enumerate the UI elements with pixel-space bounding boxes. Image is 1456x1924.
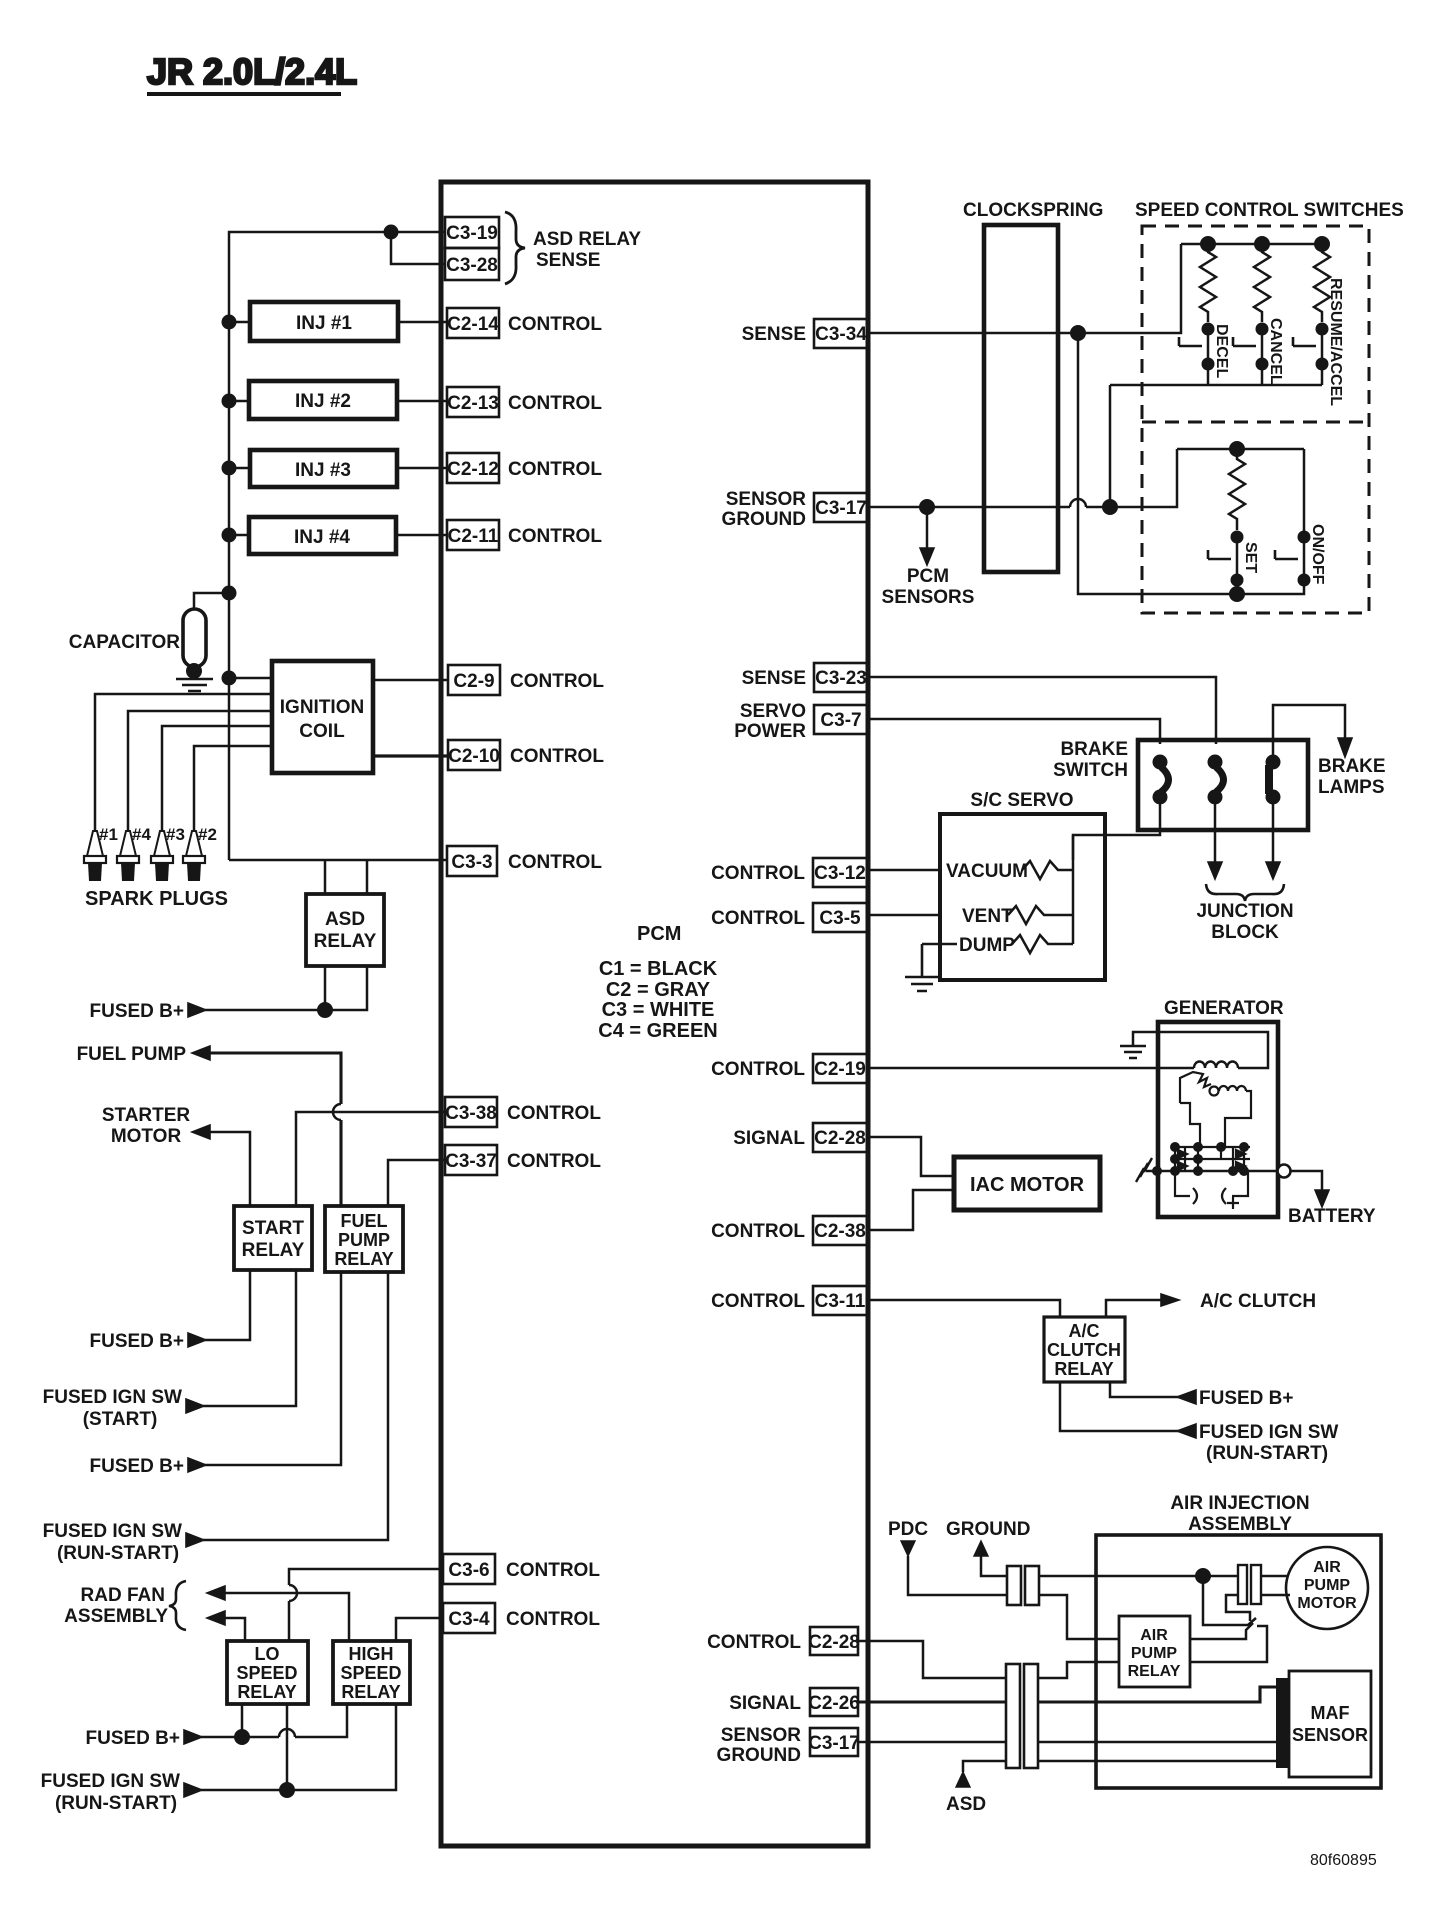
spark plug #1 (84, 825, 118, 881)
wire hop fused B+ over lo relay output (279, 1729, 295, 1737)
node FUSED B+ arrow (fan relays) (184, 1730, 202, 1744)
wire C2-28 control to air pump relay (858, 1641, 1119, 1678)
pin C3-4 (443, 1603, 600, 1633)
svg-text:C3-34: C3-34 (815, 324, 867, 345)
svg-text:LO: LO (255, 1644, 280, 1664)
wire start relay to FUSED IGN SW START (203, 1270, 296, 1406)
svg-text:C1 = BLACK: C1 = BLACK (599, 958, 718, 980)
svg-text:(RUN-START): (RUN-START) (1206, 1443, 1328, 1464)
junction top rail R2 (1254, 236, 1270, 252)
s/c servo box (940, 790, 1105, 980)
brake switch pole 2 (1208, 755, 1224, 805)
pin C3-3 (447, 846, 602, 876)
svg-text:FUSED IGN SW: FUSED IGN SW (1199, 1422, 1338, 1443)
wire C3-23 sense to brake switch (868, 677, 1216, 744)
wire ASD relay top terminals (325, 860, 367, 894)
wire C3-4 to high speed relay (396, 1618, 443, 1641)
svg-text:CLUTCH: CLUTCH (1047, 1340, 1121, 1360)
pin C2-26 (729, 1688, 860, 1716)
svg-text:(START): (START) (83, 1409, 158, 1430)
svg-text:ASD: ASD (325, 909, 365, 930)
svg-text:INJ #4: INJ #4 (294, 527, 350, 548)
wire coil to C2-9 (373, 679, 448, 682)
svg-text:DECEL: DECEL (1213, 324, 1230, 378)
wire start relay to FUSED B+ (205, 1270, 250, 1340)
injector INJ #4 (249, 517, 396, 554)
wire C3-6 to LO speed relay with hop (289, 1569, 443, 1641)
MAF sensor connector bar (1276, 1678, 1289, 1768)
svg-text:FUEL: FUEL (341, 1211, 388, 1231)
pin C3-34 (742, 319, 868, 348)
svg-text:INJ #3: INJ #3 (295, 460, 351, 481)
relay K6 A/C CLUTCH RELAY (1044, 1317, 1125, 1382)
node FUEL PUMP arrow and wire (192, 1046, 210, 1060)
svg-text:MOTOR: MOTOR (111, 1126, 182, 1147)
wire C3-5 to vent valve (868, 914, 941, 917)
svg-text:MAF: MAF (1311, 1703, 1350, 1723)
svg-text:#3: #3 (166, 825, 185, 844)
relay K1 ASD RELAY (306, 894, 384, 966)
junction dot at C3-19 wire (384, 225, 399, 240)
wire lower switch bottom rail (1237, 543, 1304, 594)
svg-text:POWER: POWER (734, 721, 806, 742)
svg-text:MOTOR: MOTOR (1297, 1595, 1357, 1612)
svg-text:INJ #2: INJ #2 (295, 391, 351, 412)
svg-text:CONTROL: CONTROL (508, 526, 602, 547)
svg-text:FUSED B+: FUSED B+ (1199, 1388, 1294, 1409)
svg-text:PUMP: PUMP (1131, 1645, 1178, 1662)
svg-text:RELAY: RELAY (341, 1682, 400, 1702)
wire brake pole2 to junction block arrow (1214, 797, 1217, 864)
pin C2-12 (447, 453, 602, 483)
wire brake pole1 to servo (1073, 797, 1160, 860)
wire relay to fused ign sw arrow (1060, 1382, 1179, 1431)
wire rail to INJ#3 and C2-12 (229, 467, 447, 470)
svg-text:CONTROL: CONTROL (510, 746, 604, 767)
svg-text:#2: #2 (198, 825, 217, 844)
wire brake lamps (1273, 705, 1345, 762)
svg-text:SPEED: SPEED (236, 1663, 297, 1683)
svg-text:BLOCK: BLOCK (1211, 922, 1279, 943)
svg-text:RELAY: RELAY (334, 1249, 393, 1269)
wire relay to A/C clutch arrow (1106, 1300, 1161, 1317)
wire hop C3-6 over rad fan wire (289, 1585, 297, 1601)
svg-text:GENERATOR: GENERATOR (1164, 998, 1284, 1019)
svg-text:ASD: ASD (946, 1794, 986, 1815)
wire coil to spark plug 1 (95, 694, 272, 831)
wire relay contact to motor connector terminal (1190, 1623, 1267, 1662)
svg-text:SENSE: SENSE (742, 668, 806, 689)
ground under capacitor (176, 679, 213, 691)
air pump motor M2 (1286, 1547, 1368, 1629)
pin C3-17 (722, 489, 868, 530)
wire field coil to internal ground loop (1133, 1032, 1268, 1068)
title JR 2.0L/2.4L (147, 51, 357, 94)
node PDC arrow (888, 1519, 1008, 1595)
wire coil to spark plug 2 (194, 746, 272, 831)
svg-text:C2-28: C2-28 (814, 1128, 866, 1149)
svg-text:C3-12: C3-12 (814, 863, 866, 884)
svg-text:CONTROL: CONTROL (507, 1103, 601, 1124)
junction sense wire (1070, 325, 1086, 341)
wire fuel pump relay to FUSED B+ 2 (205, 1272, 341, 1465)
junction sensor ground to switch bottom rail (1102, 499, 1118, 515)
pin C2-19 (711, 1054, 868, 1083)
ground generator field (1120, 1046, 1146, 1058)
pin C3-19 (445, 217, 499, 248)
svg-text:PCM: PCM (637, 923, 681, 945)
svg-text:C2-19: C2-19 (814, 1059, 866, 1080)
wire rail bottom to C3-3 (229, 859, 447, 862)
wire lower switch top rail (1177, 448, 1304, 451)
svg-text:C2-38: C2-38 (814, 1221, 866, 1242)
wire C2-38 control to IAC motor (868, 1190, 953, 1230)
connector J1 pdc/ground (1007, 1566, 1039, 1605)
svg-text:RESUME/ACCEL: RESUME/ACCEL (1327, 278, 1344, 406)
pin C3-5 (711, 903, 868, 932)
svg-text:ASSEMBLY: ASSEMBLY (1188, 1514, 1292, 1535)
servo valve VENT (962, 906, 1073, 927)
resistor R1 decel (1200, 244, 1216, 322)
svg-text:GROUND: GROUND (946, 1519, 1030, 1540)
svg-text:CONTROL: CONTROL (711, 863, 805, 884)
wire rail to INJ#1 and C2-14 (229, 321, 447, 324)
svg-text:COIL: COIL (299, 721, 345, 742)
wire relay to fused B+ arrow (1110, 1382, 1179, 1397)
svg-text:CONTROL: CONTROL (508, 314, 602, 335)
wire ground to air pump motor (1039, 1575, 1287, 1578)
wire motor second terminal through connector (1226, 1595, 1290, 1621)
svg-text:GROUND: GROUND (722, 509, 806, 530)
brake switch box (1053, 739, 1308, 830)
svg-text:C3-17: C3-17 (808, 1733, 860, 1754)
wire FUSED B+ to lo and high relays with hop (201, 1704, 347, 1737)
junction run-start lo relay (279, 1782, 295, 1798)
node ASD RELAY SENSE brace and label (505, 212, 641, 284)
pin C2-10 (448, 740, 604, 770)
spark plug #4 (117, 825, 151, 881)
svg-text:INJ #1: INJ #1 (296, 313, 352, 334)
injector INJ #3 (250, 450, 397, 487)
pin C2-28 signal (733, 1123, 868, 1152)
wire C3-37 control to fuel pump relay (388, 1160, 445, 1206)
svg-text:CANCEL: CANCEL (1267, 318, 1284, 385)
svg-text:CONTROL: CONTROL (507, 1151, 601, 1172)
air injection assembly box (1096, 1493, 1381, 1788)
svg-text:DUMP: DUMP (959, 935, 1015, 956)
svg-text:SIGNAL: SIGNAL (733, 1128, 805, 1149)
pin C3-17 sensor ground bottom (717, 1725, 860, 1766)
svg-text:CONTROL: CONTROL (711, 908, 805, 929)
svg-text:C2-14: C2-14 (447, 314, 499, 335)
pin C3-7 (734, 701, 868, 742)
capacitor bottom terminal dot (186, 663, 202, 679)
generator field coil L1 (1194, 1062, 1238, 1069)
svg-text:PCM: PCM (907, 566, 949, 587)
svg-text:C3-3: C3-3 (451, 852, 492, 873)
svg-text:AIR: AIR (1313, 1559, 1341, 1576)
wire upper switch bottom rail (1110, 335, 1322, 385)
wire rail to capacitor (194, 593, 229, 609)
wire pdc to air pump relay (1039, 1595, 1119, 1639)
relay K4 LO SPEED RELAY (227, 1641, 308, 1704)
MAF sensor U2 (1289, 1671, 1371, 1777)
svg-text:SPEED: SPEED (340, 1663, 401, 1683)
svg-text:RELAY: RELAY (1054, 1359, 1113, 1379)
svg-text:ON/OFF: ON/OFF (1309, 524, 1326, 585)
svg-text:BRAKE: BRAKE (1060, 739, 1128, 760)
svg-text:FUEL PUMP: FUEL PUMP (77, 1044, 187, 1065)
pin C2-11 (447, 520, 602, 550)
op-amp U1 PCM main box (441, 182, 868, 1846)
svg-text:VENT: VENT (962, 906, 1013, 927)
wire ASD rail from C3-19 to junctions (229, 232, 445, 860)
svg-text:CONTROL: CONTROL (711, 1291, 805, 1312)
svg-text:SET: SET (1242, 542, 1259, 573)
switch S4 SET (1208, 531, 1259, 587)
svg-text:C3-7: C3-7 (820, 710, 861, 731)
svg-text:A/C: A/C (1069, 1321, 1100, 1341)
svg-text:CONTROL: CONTROL (508, 459, 602, 480)
junction top rail R3 (1314, 236, 1330, 252)
svg-text:FUSED B+: FUSED B+ (90, 1456, 185, 1477)
svg-text:JUNCTION: JUNCTION (1196, 901, 1293, 922)
wire junction up to upper switch bottom rail (1109, 385, 1112, 507)
node FUSED IGN SW (RUN-START) arrow (186, 1533, 204, 1547)
generator brushes (1175, 1171, 1248, 1209)
svg-text:FUSED IGN SW: FUSED IGN SW (43, 1521, 182, 1542)
node PCM legend (598, 923, 717, 1042)
spark plug #3 (151, 825, 185, 881)
svg-text:CONTROL: CONTROL (506, 1609, 600, 1630)
wire ASD feed to MAF (963, 1761, 1276, 1772)
svg-text:S/C SERVO: S/C SERVO (970, 790, 1073, 811)
junction dot PCM SENSORS (919, 499, 935, 515)
svg-text:FUSED IGN SW: FUSED IGN SW (41, 1771, 180, 1792)
pin C2-38 (711, 1216, 868, 1245)
svg-text:C2-26: C2-26 (808, 1693, 860, 1714)
junction fused B+ lo relay (234, 1729, 250, 1745)
capacitor C1 body (183, 609, 206, 667)
svg-text:(RUN-START): (RUN-START) (55, 1793, 177, 1814)
junction rail INJ#1 (222, 315, 237, 330)
junction rail INJ#4 (222, 528, 237, 543)
connector J3 bulkhead (1006, 1664, 1038, 1768)
svg-text:PUMP: PUMP (1304, 1577, 1351, 1594)
resistor R2 cancel (1254, 244, 1270, 322)
wire C2-26 signal to MAF (858, 1687, 1276, 1702)
svg-text:SERVO: SERVO (740, 701, 806, 722)
svg-text:RELAY: RELAY (314, 931, 377, 952)
speed control switches dashed box (1135, 200, 1404, 613)
wire FUSED IGN SW RUN-START to high relay (201, 1704, 396, 1790)
svg-text:ASD RELAY: ASD RELAY (533, 229, 641, 250)
servo common vertical (1072, 835, 1075, 944)
node STARTER MOTOR arrow and wire (192, 1125, 210, 1139)
wire C2-28 signal to IAC motor (868, 1137, 953, 1176)
wire generator to battery arrow (1291, 1171, 1322, 1192)
wire coil to spark plug 4 (128, 711, 272, 831)
svg-text:CONTROL: CONTROL (711, 1059, 805, 1080)
svg-text:C2-10: C2-10 (448, 746, 500, 767)
wire rail to INJ#4 and C2-11 (229, 534, 447, 537)
node ASD arrow (946, 1772, 986, 1815)
pin C3-38 (445, 1097, 601, 1127)
node BRAKE LAMPS arrow (1338, 738, 1352, 757)
generator G1 box (1158, 998, 1284, 1217)
svg-text:SENSE: SENSE (742, 324, 806, 345)
pin C2-28 control (707, 1627, 860, 1655)
junction rail coil (222, 671, 237, 686)
svg-text:RELAY: RELAY (1128, 1663, 1181, 1680)
svg-text:AIR INJECTION: AIR INJECTION (1170, 1493, 1309, 1514)
wire C3-11 control to A/C clutch relay (868, 1300, 1060, 1317)
wire C3-7 servo power to brake switch (868, 719, 1160, 744)
node GROUND arrow (946, 1519, 1030, 1576)
generator rectifier bridge (1170, 1142, 1250, 1176)
pin C3-12 (711, 858, 868, 887)
svg-text:SENSE: SENSE (536, 250, 600, 271)
wire hop fuel pump over C3-38 (333, 1104, 341, 1120)
svg-text:C3-4: C3-4 (448, 1609, 490, 1630)
svg-text:CONTROL: CONTROL (508, 393, 602, 414)
wire C2-19 to generator field coil (868, 1067, 1194, 1070)
pin C3-28 (445, 248, 499, 280)
svg-text:CONTROL: CONTROL (707, 1632, 801, 1653)
ignition coil T1 (272, 661, 373, 773)
relay K3 FUEL PUMP RELAY (325, 1206, 403, 1272)
svg-text:(RUN-START): (RUN-START) (57, 1543, 179, 1564)
junction top rail R1 (1200, 236, 1216, 252)
wire C3-38 control to start relay (296, 1112, 445, 1206)
junction rail INJ#2 (222, 394, 237, 409)
svg-text:CONTROL: CONTROL (711, 1221, 805, 1242)
junction rail capacitor (222, 586, 237, 601)
pin C2-9 (448, 665, 604, 695)
connector J2 air pump motor (1238, 1565, 1261, 1604)
svg-text:SENSORS: SENSORS (882, 587, 975, 608)
svg-text:SWITCH: SWITCH (1053, 760, 1128, 781)
svg-text:SPEED CONTROL SWITCHES: SPEED CONTROL SWITCHES (1135, 200, 1404, 221)
svg-text:C2-12: C2-12 (447, 459, 499, 480)
svg-text:ASSEMBLY: ASSEMBLY (64, 1606, 168, 1627)
generator output terminal circle (1278, 1165, 1291, 1178)
relay K5 HIGH SPEED RELAY (333, 1641, 410, 1704)
pin C3-11 (711, 1286, 868, 1315)
node FUSED IGN SW (RUN-START) arrow (fan) (184, 1783, 202, 1797)
brake switch pole 3 closed (1266, 755, 1281, 805)
svg-text:FUSED B+: FUSED B+ (90, 1001, 185, 1022)
svg-text:C3-6: C3-6 (448, 1560, 489, 1581)
wire sense junction down to set/onoff rail with hop (1078, 333, 1237, 594)
node FUSED B+ arrow (fuel pump relay) (188, 1458, 206, 1472)
svg-text:C2-13: C2-13 (447, 393, 499, 414)
svg-text:CONTROL: CONTROL (506, 1560, 600, 1581)
svg-text:LAMPS: LAMPS (1318, 777, 1385, 798)
svg-text:FUSED B+: FUSED B+ (90, 1331, 185, 1352)
junction rail INJ#3 (222, 461, 237, 476)
pin C3-37 (445, 1145, 601, 1175)
svg-text:SENSOR: SENSOR (1292, 1725, 1368, 1745)
svg-text:RELAY: RELAY (242, 1240, 305, 1261)
wire lo relay output down to run-start wire (286, 1704, 289, 1790)
svg-text:C2 = GRAY: C2 = GRAY (606, 979, 711, 1001)
wire junction down to motor feed connector (1203, 1576, 1256, 1625)
svg-text:FUSED IGN SW: FUSED IGN SW (43, 1387, 182, 1408)
wire C3-17 sensor ground to MAF (858, 1741, 1276, 1744)
wire coil to C2-10 (373, 754, 448, 757)
junction ground air pump (1195, 1568, 1211, 1584)
svg-text:HIGH: HIGH (349, 1644, 394, 1664)
svg-text:BATTERY: BATTERY (1288, 1206, 1376, 1227)
svg-text:VACUUM: VACUUM (946, 861, 1028, 882)
switch S2 CANCEL (1233, 318, 1284, 385)
node FUSED B+ arrow (start relay) (188, 1333, 206, 1347)
pin C3-23 (742, 663, 868, 692)
junction set bottom (1229, 586, 1245, 602)
svg-text:C2-9: C2-9 (453, 671, 494, 692)
svg-text:C3 = WHITE: C3 = WHITE (602, 999, 715, 1021)
svg-text:BRAKE: BRAKE (1318, 756, 1386, 777)
wire C3-34 sense to speed control (868, 244, 1181, 333)
svg-text:PUMP: PUMP (338, 1230, 390, 1250)
svg-text:C3-19: C3-19 (446, 223, 498, 244)
svg-text:SIGNAL: SIGNAL (729, 1693, 801, 1714)
injector INJ #2 (249, 381, 397, 419)
junction ASD fused B+ (317, 1002, 333, 1018)
relay K2 START RELAY (234, 1206, 312, 1270)
generator output bus (1146, 1170, 1278, 1173)
generator stator winding (1180, 1072, 1251, 1146)
svg-text:PDC: PDC (888, 1519, 928, 1540)
svg-text:C2-28: C2-28 (808, 1632, 860, 1653)
switch S3 RESUME/ACCEL (1293, 278, 1344, 406)
svg-text:START: START (242, 1218, 304, 1239)
IAC motor M1 box (954, 1157, 1100, 1210)
svg-text:SENSOR: SENSOR (726, 489, 807, 510)
pin C2-14 (447, 308, 602, 338)
svg-text:CAPACITOR: CAPACITOR (69, 632, 180, 653)
wire brake pole3 to junction block arrow (1272, 797, 1275, 864)
resistor R3 resume/accel (1314, 244, 1330, 322)
svg-text:SPARK PLUGS: SPARK PLUGS (85, 888, 228, 910)
junction lower rail R4 (1229, 441, 1245, 457)
svg-text:IGNITION: IGNITION (280, 697, 364, 718)
svg-text:RELAY: RELAY (237, 1682, 296, 1702)
pin C2-13 (447, 387, 602, 417)
svg-text:#4: #4 (132, 825, 151, 844)
svg-text:SENSOR: SENSOR (721, 1725, 802, 1746)
wire C3-17 sensor ground to speed control with hop (868, 449, 1177, 507)
node FUSED IGN SW (START) arrow (186, 1399, 204, 1413)
svg-text:C3-5: C3-5 (819, 908, 861, 929)
injector INJ #1 (250, 302, 398, 341)
svg-text:FUSED B+: FUSED B+ (86, 1728, 181, 1749)
svg-text:AIR: AIR (1140, 1627, 1168, 1644)
clockspring box (963, 200, 1103, 572)
spark plug #2 (183, 825, 217, 881)
svg-text:JR 2.0L/2.4L: JR 2.0L/2.4L (147, 51, 357, 92)
svg-text:C3-23: C3-23 (815, 668, 867, 689)
svg-text:C3-17: C3-17 (815, 498, 867, 519)
svg-text:GROUND: GROUND (717, 1745, 801, 1766)
resistor R4 set (1229, 449, 1245, 530)
wire ASD relay bottom to FUSED B+ (205, 966, 367, 1010)
svg-text:C2-11: C2-11 (448, 526, 499, 547)
node PCM SENSORS arrow (926, 507, 929, 550)
node FUSED B+ arrow (ASD) (188, 1003, 206, 1017)
svg-text:C4 = GREEN: C4 = GREEN (598, 1020, 717, 1042)
